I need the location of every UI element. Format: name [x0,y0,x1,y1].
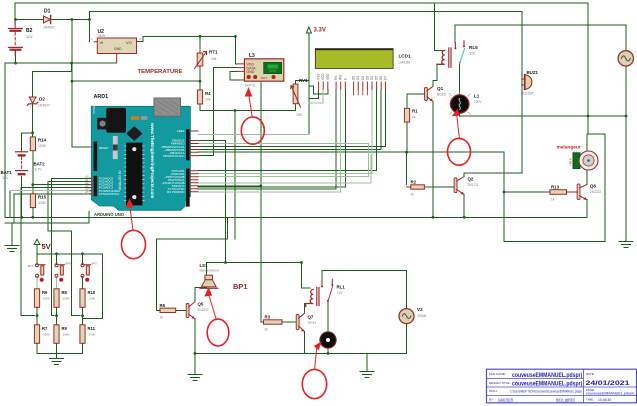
ground below speaker Q5 [188,375,202,381]
svg-text:3.7v: 3.7v [2,176,9,180]
ground below buttons [50,359,64,365]
svg-text:PATH:: PATH: [489,389,498,393]
svg-text:3.7V: 3.7V [35,168,43,172]
wire top +12V rail [15,3,605,241]
resistor R14 [30,137,35,151]
svg-text:ARD1: ARD1 [94,94,109,100]
svg-text:LS1: LS1 [200,263,209,268]
wire lamp 220V row [460,64,626,116]
svg-text:AREF: AREF [177,129,185,133]
svg-text:RL1: RL1 [337,285,346,290]
svg-text:330K: 330K [43,333,50,337]
svg-text:R11: R11 [88,326,96,331]
svg-text:D1: D1 [44,9,51,15]
svg-text:FILE NAME:: FILE NAME: [489,372,506,376]
battery BAT1 [16,171,28,175]
svg-text:TIP31: TIP31 [308,321,317,325]
svg-text:150K: 150K [43,297,50,301]
svg-text:BP1: BP1 [28,264,34,268]
ground bottom right AC [619,242,633,248]
svg-text:BC337: BC337 [437,93,447,97]
AC source V2 [399,309,414,324]
resistor R6 [34,289,39,308]
wire PB4 to Q1 base [407,94,425,152]
wire LCD VSS VEE knot [296,81,328,99]
svg-text:10k: 10k [211,57,217,61]
svg-text:couveuseEMMANUEL.pdsprj: couveuseEMMANUEL.pdsprj [512,380,582,387]
wire Q8 collector emitter [586,134,588,217]
svg-text:7805: 7805 [98,34,106,38]
svg-text:VDD: VDD [321,73,325,80]
wire pale AREF 3.3V line [198,134,309,136]
svg-text:couveuseEMMANUEL.pdsprj: couveuseEMMANUEL.pdsprj [512,372,582,379]
probe arrow on L3 [245,87,253,97]
wire R3 Q7 base [261,304,305,322]
svg-text:VEE: VEE [326,74,330,80]
wire bottom ground rail [195,324,407,375]
wire pale LCD VDD [309,89,323,103]
svg-text:LM016L: LM016L [399,61,411,65]
svg-text:VSINE: VSINE [417,314,427,318]
svg-text:D2: D2 [39,97,45,102]
wire +12V sub rail y11.5 [89,12,521,173]
svg-text:VO: VO [126,40,132,45]
svg-text:VSS: VSS [317,74,321,80]
resistor R15 [30,194,35,208]
probe arrow on lamp L1 [452,108,460,116]
wire PB1 to Q2 R13 [198,152,574,192]
wire ground net top-left [5,51,117,218]
svg-text:R14: R14 [38,138,47,143]
lamp L1 [448,92,471,115]
svg-text:2k: 2k [411,193,415,197]
svg-text:100K: 100K [38,144,47,148]
probe arrow on fan [314,341,322,350]
wire 3.3V drop [308,33,310,135]
svg-text:D5: D5 [375,76,379,80]
svg-text:PB0/ICP1/CLKO: PB0/ICP1/CLKO [163,154,185,158]
wire 5V button rail [37,245,103,319]
wire RT1 R4 divider [200,36,296,239]
resistor R13 [550,190,567,195]
svg-text:RV1: RV1 [299,78,308,83]
svg-text:3.3V: 3.3V [314,28,326,34]
wire pale PB4 run [198,144,368,177]
wire U2 output 5V rail [137,36,236,41]
wire R5 Q5 base feed [157,217,228,310]
wire button column 1 [36,254,38,354]
svg-text:C:\Users\NEW TECH\Documents\co: C:\Users\NEW TECH\Documents\couveuseEMMA… [510,390,582,394]
wire RL5 coil feed [433,3,442,217]
svg-text:Q2: Q2 [468,177,474,182]
3.3V power flag [306,27,311,33]
svg-text:R5: R5 [160,303,166,308]
ground left of buttons [5,246,19,252]
LCD1 LM016L display [315,48,411,69]
svg-text:10K: 10K [296,113,303,117]
svg-text:330K: 330K [89,333,96,337]
svg-text:D4: D4 [370,76,374,80]
motor melangeur [557,145,599,171]
transistor Q7 [296,311,304,332]
potentiometer RV1 [291,84,301,107]
svg-text:couveuseEMMANUEL.pdsprj: couveuseEMMANUEL.pdsprj [586,391,634,395]
wire button column 2 [56,254,58,354]
transistor Q1 [425,86,434,101]
wire Q5 collector emitter [195,288,207,354]
transistor Q2 [454,176,464,194]
svg-text:RESET: RESET [99,146,109,150]
wire Q2 collector emitter base [427,173,522,218]
svg-text:10:46:30: 10:46:30 [598,398,611,402]
wire PB5 to speaker net [198,141,226,263]
svg-text:R7: R7 [42,326,48,331]
svg-text:D1: D1 [356,76,360,80]
ammeter probe circle [448,138,471,165]
svg-text:220V: 220V [474,100,482,104]
svg-text:RT1: RT1 [209,50,218,55]
wire LCD data staircase to arduino [198,89,385,189]
wire battery B2 feed and D1 row [15,3,200,147]
svg-text:RW: RW [339,75,343,80]
push button BP0 col2 [55,264,65,278]
thermistor RT1 [195,50,207,69]
svg-text:+88.8: +88.8 [569,158,573,166]
svg-text:Q8: Q8 [590,184,596,189]
svg-text:DHT11: DHT11 [245,84,256,88]
svg-text:2k: 2k [160,316,164,320]
wire analog A3 [21,188,96,316]
svg-text:RS: RS [334,76,338,80]
svg-text:PC5/ADC5/SCL: PC5/ADC5/SCL [99,192,120,196]
svg-text:GND: GND [114,47,122,51]
svg-text:BUZ1: BUZ1 [527,70,539,75]
svg-text:12v: 12v [26,34,32,39]
svg-text:POWER: POWER [92,103,96,114]
resistor R8 [54,289,59,308]
resistor R7 [34,325,39,344]
svg-text:DATE:: DATE: [586,372,595,376]
LCD pin name labels [317,73,388,80]
wire AC source loop [455,25,626,242]
svg-text:GND: GND [247,70,255,74]
svg-text:Q1: Q1 [437,86,444,91]
svg-text:DESIGN TITLE:: DESIGN TITLE: [489,381,510,385]
svg-text:10k: 10k [205,98,211,102]
wire analog A0 [52,178,96,315]
wire speaker net [207,263,310,289]
svg-text:BP2: BP2 [92,262,98,266]
svg-text:R2: R2 [411,180,417,185]
svg-text:R4: R4 [205,91,211,96]
wire pale button column lower halves [37,277,57,289]
svg-text:BUZZER: BUZZER [521,92,534,96]
svg-text:L1: L1 [474,94,480,99]
svg-text:DHT: DHT [261,76,267,80]
transistor Q8 [574,184,587,200]
svg-text:ANALOG IN: ANALOG IN [118,170,122,190]
svg-text:E: E [343,78,347,80]
wire pale A4 [10,190,96,192]
svg-text:Q7: Q7 [308,315,314,320]
title block [487,369,637,403]
svg-text:Q5: Q5 [198,302,204,307]
svg-text:V2: V2 [417,307,423,312]
diode D1 [44,16,51,24]
probe circle below arduino [122,230,146,258]
wire pale D4 RW lines [198,89,372,192]
resistor R4 [197,90,202,104]
svg-text:24/01/2021: 24/01/2021 [586,380,630,387]
svg-text:R6: R6 [42,290,48,295]
svg-text:TIME:: TIME: [586,398,594,402]
svg-text:ARDUINO UNO: ARDUINO UNO [94,212,125,217]
wire analog A2 battery sense [33,184,96,186]
svg-text:LCD1: LCD1 [399,54,411,59]
probe circle below LS1 [207,319,229,346]
sensor module L3 DHT11 [238,53,284,88]
svg-text:BY:: BY: [489,398,494,402]
svg-text:2N2222: 2N2222 [590,190,601,194]
svg-text:100K: 100K [63,333,70,337]
buzzer BUZ1 [522,75,532,89]
battery B2 [8,21,22,57]
zener D2 [27,97,38,105]
wire analog A1 [48,182,96,316]
svg-text:TEMPERATURE: TEMPERATURE [138,69,183,75]
svg-text:GAUTIER: GAUTIER [498,398,514,402]
wire D2 chain [22,63,72,217]
svg-text:A5: A5 [84,190,89,194]
svg-text:R9: R9 [62,326,68,331]
svg-text:1N4007: 1N4007 [43,26,55,30]
svg-text:5V: 5V [42,242,51,251]
svg-text:D3: D3 [365,76,369,80]
resistor R5 [160,308,176,312]
probe arrow on arduino [125,198,133,207]
svg-text:12V: 12V [470,52,477,56]
AC source top right [618,51,633,66]
LCD pin stubs [319,82,386,95]
5V power flag [34,239,40,244]
wire main ground rail [5,216,587,218]
svg-text:VI: VI [100,40,104,45]
svg-text:R15: R15 [38,195,47,200]
push button BP1 col1 [36,264,46,278]
relay RL1 [306,279,334,306]
probe circle below L3 [241,117,264,144]
svg-text:1k: 1k [551,198,555,202]
svg-text:BAT1: BAT1 [1,170,13,175]
resistor R3 [264,320,283,324]
svg-text:R10: R10 [88,290,96,295]
wire usb ground branch [5,211,89,245]
svg-text:BAT2: BAT2 [34,162,46,167]
wire L3 sensor connections [198,36,261,322]
svg-text:R8: R8 [62,290,68,295]
svg-text:D0: D0 [352,76,356,80]
svg-text:R13: R13 [551,185,560,190]
wire button column 3 [82,254,84,354]
svg-text:2N1711: 2N1711 [468,183,479,187]
speaker LS1 [200,275,218,288]
wire analog A4 A5 [10,191,96,223]
svg-text:L3: L3 [249,53,255,59]
ground below V2 [360,372,374,378]
resistor R10 [80,289,85,308]
resistor R11 [80,325,85,344]
resistor R1 [404,108,409,122]
svg-text:RL5: RL5 [469,45,478,50]
svg-text:BP0: BP0 [66,262,72,266]
resistor R9 [54,325,59,344]
fan motor [320,332,336,348]
svg-text:D2: D2 [361,76,365,80]
junction dots [14,18,17,21]
svg-text:BP1: BP1 [233,282,248,291]
transistor Q5 [186,302,195,319]
svg-text:www.TheEngineeringProjects.com: www.TheEngineeringProjects.com [150,122,155,198]
svg-text:100K: 100K [63,297,70,301]
battery BAT2 [16,152,28,170]
relay RL5 [437,41,465,68]
svg-text:D7: D7 [383,76,387,80]
probe arrow on LS1 [204,287,212,296]
svg-text:12V: 12V [337,291,344,295]
svg-text:REV: @REV: REV: @REV [556,398,576,402]
arduino board ARD1 [84,98,198,217]
svg-text:R3: R3 [265,315,271,320]
svg-text:RX PD0/RXD: RX PD0/RXD [167,190,184,194]
svg-text:1N4007: 1N4007 [38,104,50,108]
regulator U2 7805 [91,29,141,63]
resistor R2 [411,185,425,189]
svg-text:2k: 2k [265,328,269,332]
wire RL1 switch to V2 [322,271,407,333]
svg-text:R1: R1 [412,109,418,114]
svg-text:330K: 330K [38,201,47,205]
svg-text:1k: 1k [412,115,416,119]
push button BP2 col3 [81,264,91,278]
probe circle below fan [302,369,326,398]
svg-text:2N2222: 2N2222 [198,308,209,312]
svg-text:85DB/8OHM/1W: 85DB/8OHM/1W [200,269,220,273]
wire button ground rail [37,354,83,359]
svg-text:150K: 150K [89,297,96,301]
